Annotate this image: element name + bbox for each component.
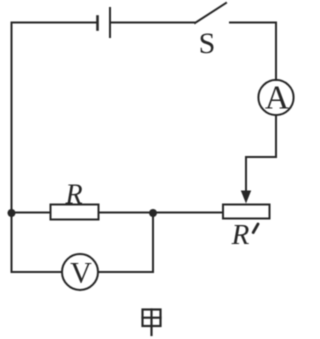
svg-text:R: R [64, 180, 82, 211]
svg-text:V: V [70, 257, 92, 290]
svg-text:S: S [199, 27, 216, 60]
svg-text:R: R [231, 219, 250, 251]
svg-text:A: A [265, 80, 289, 117]
